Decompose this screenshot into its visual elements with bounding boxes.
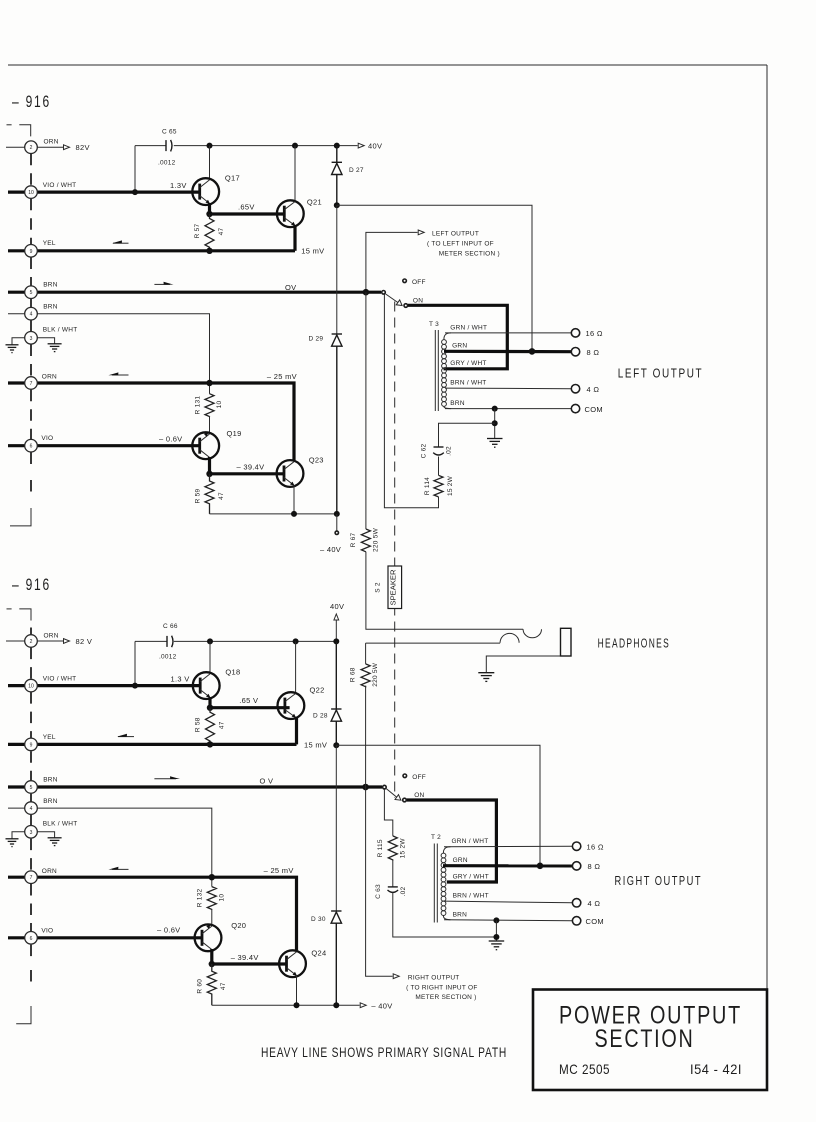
svg-text:ORN: ORN: [42, 868, 57, 875]
wire -40V rail (top half): [210, 513, 337, 515]
capacitor C65: [166, 140, 172, 152]
svg-text:16 Ω: 16 Ω: [587, 843, 604, 852]
svg-text:8 Ω: 8 Ω: [588, 862, 601, 871]
node D27/feedback junction: [334, 202, 340, 208]
svg-text:S 2: S 2: [375, 582, 382, 593]
svg-text:R 60: R 60: [196, 979, 203, 994]
wire YEL bus (thick): [8, 249, 295, 252]
node Zobel/ground junction: [492, 420, 498, 426]
wire switch to GRY/WHT tap b (thick): [407, 800, 497, 882]
wire VIO bus b (thick): [8, 936, 202, 939]
svg-text:82V: 82V: [76, 143, 90, 152]
wire VIO bus (thick): [8, 444, 200, 447]
connector pin 7: [25, 377, 38, 390]
arrow on YEL bus b (left): [117, 734, 134, 737]
wire BRN/WHT tap b to 4 ohm: [444, 901, 572, 903]
svg-text:BRN / WHT: BRN / WHT: [453, 893, 489, 900]
arrow on BRN bus (right): [154, 282, 173, 285]
node rail b /40V riser: [333, 638, 339, 644]
svg-text:C 65: C 65: [162, 129, 177, 136]
wire BRN pin4b line: [8, 808, 212, 887]
svg-text:COM: COM: [585, 405, 603, 414]
wire .65V line Q17 emitter to Q21 base (thick): [210, 212, 285, 215]
wire pin2 stub and 82V arrow: [6, 145, 70, 150]
arrow on ORN bus b (left): [108, 867, 128, 870]
svg-text:( TO RIGHT INPUT OF: ( TO RIGHT INPUT OF: [406, 984, 477, 991]
cable bracket dashed bottom-left (bottom half): [16, 1006, 31, 1024]
connector pin 5b: [25, 781, 38, 794]
svg-text:BRN: BRN: [43, 282, 58, 289]
wire 40V rail (top): [135, 143, 364, 148]
svg-text:15 2W: 15 2W: [399, 838, 406, 859]
svg-text:SPEAKER: SPEAKER: [390, 569, 397, 605]
svg-text:220 5W: 220 5W: [372, 662, 379, 687]
resistor R68: [361, 664, 370, 687]
wire R68 bottom to OV b: [365, 686, 367, 787]
resistor R67: [361, 529, 370, 552]
svg-text:40V: 40V: [368, 142, 382, 151]
svg-text:Q18: Q18: [225, 668, 240, 677]
switch S2 left: pivot and arm: [382, 291, 408, 308]
wire Q21 collector riser: [294, 146, 296, 202]
wire BRN junction b down to ground: [495, 920, 497, 941]
svg-text:ORN: ORN: [42, 374, 57, 381]
svg-text:1.3V: 1.3V: [170, 181, 187, 190]
headphone ring contact hook: [500, 633, 519, 642]
svg-text:4: 4: [30, 806, 33, 812]
transistor Q19: [192, 432, 219, 459]
border frame top line: [8, 64, 767, 66]
node rail b /Q18 collector: [207, 638, 213, 644]
svg-text:BRN: BRN: [453, 911, 468, 918]
connector pin 10: [25, 186, 38, 199]
svg-text:R 67: R 67: [350, 533, 357, 548]
node D29/-40V rail junction: [334, 511, 340, 517]
resistor R60: [207, 964, 216, 1005]
terminal 8 ohm: [571, 348, 579, 356]
wire C62 to R114: [438, 457, 440, 476]
wire GRN tap to 8 ohm (thick): [444, 350, 571, 354]
wire D27-D29 link crossing OV: [336, 205, 338, 334]
svg-text:4 Ω: 4 Ω: [588, 899, 601, 908]
transistor Q22: [278, 692, 305, 719]
node Q18 emitter junction: [207, 705, 213, 711]
svg-text:15 mV: 15 mV: [301, 246, 324, 255]
wire Zobel top link: [439, 423, 495, 447]
svg-text:47: 47: [218, 492, 225, 500]
switch S2 right: pivot and arm: [383, 785, 407, 802]
svg-text:Q23: Q23: [309, 456, 324, 465]
node Q24/-40V rail junction: [294, 1002, 300, 1008]
resistor R59: [205, 474, 214, 514]
cable bracket dashed bottom-left (top half): [10, 508, 31, 526]
svg-text:GRN / WHT: GRN / WHT: [450, 324, 487, 331]
wire GRN/WHT tap b to 16 ohm: [444, 845, 572, 848]
svg-text:( TO LEFT INPUT OF: ( TO LEFT INPUT OF: [427, 241, 494, 248]
svg-text:15 2W: 15 2W: [447, 475, 454, 496]
svg-text:VIO / WHT: VIO / WHT: [43, 675, 77, 682]
wire GRN/WHT tap to 16 ohm: [445, 332, 572, 334]
connector pin 4b: [25, 802, 38, 815]
node ORN/R131 junction: [206, 380, 212, 386]
svg-text:40V: 40V: [330, 602, 344, 611]
wire -40V rail (bottom half): [212, 1004, 360, 1006]
svg-text:BLK / WHT: BLK / WHT: [43, 327, 78, 334]
wire ORN bus (thick) with corner down to Q23: [8, 383, 294, 460]
svg-text:MC 2505: MC 2505: [559, 1061, 610, 1077]
node BRN/ground junction: [492, 406, 498, 412]
node OV b/R68 tap junction: [362, 784, 369, 791]
resistor R132: [207, 887, 216, 910]
svg-text:2: 2: [30, 145, 33, 151]
svg-text:.0012: .0012: [159, 653, 177, 660]
arrow on YEL bus (left): [112, 240, 129, 243]
terminal -40V (top half): [335, 514, 338, 535]
connector pin 3b: [25, 826, 38, 839]
wire YEL bus b (thick): [8, 743, 297, 746]
wire R132 to Q20 emitter: [211, 910, 213, 927]
svg-text:3: 3: [30, 336, 33, 342]
svg-text:LEFT OUTPUT: LEFT OUTPUT: [618, 366, 704, 380]
wire pin2b stub and 82V arrow: [6, 639, 70, 644]
svg-text:.02: .02: [400, 886, 407, 896]
svg-text:R 59: R 59: [195, 489, 202, 504]
svg-text:10: 10: [216, 401, 223, 409]
svg-text:.02: .02: [446, 446, 453, 456]
wire Q22 collector riser: [295, 641, 297, 694]
wire -39.4V line to Q23 base (thick): [210, 472, 285, 475]
svg-text:– 25 mV: – 25 mV: [264, 866, 294, 875]
svg-text:.0012: .0012: [158, 160, 176, 167]
connector pin 6b: [25, 932, 38, 945]
node OV/R67 tap junction: [363, 289, 370, 296]
connector pin 10b: [25, 679, 38, 692]
svg-text:– 40V: – 40V: [320, 545, 341, 554]
svg-text:RIGHT OUTPUT: RIGHT OUTPUT: [408, 974, 460, 981]
connector pin 3: [25, 332, 38, 345]
node D30/-40V rail junction: [333, 1002, 339, 1008]
wire VIO/WHT bus b (thick): [8, 684, 200, 687]
svg-text:YEL: YEL: [43, 240, 56, 247]
label LEFT OUTPUT (meter note) arrow: [366, 230, 424, 292]
svg-text:– 40V: – 40V: [371, 1002, 392, 1011]
cable dashed line between connector pins (top half): [30, 154, 32, 497]
resistor R115: [388, 836, 397, 861]
svg-text:T 2: T 2: [431, 834, 441, 841]
svg-text:C 63: C 63: [375, 884, 382, 899]
terminal 4 ohm: [571, 385, 579, 393]
node D28/feedback junction b: [333, 742, 339, 748]
wire R114 bottom to output line: [384, 295, 438, 508]
svg-text:5: 5: [30, 785, 33, 791]
border frame right line: [766, 65, 768, 990]
svg-text:– 0.6V: – 0.6V: [157, 926, 180, 935]
svg-text:– 0.6V: – 0.6V: [159, 435, 182, 444]
ground pin3b left: [6, 839, 19, 847]
terminal COM: [571, 404, 579, 412]
svg-text:– 39.4V: – 39.4V: [237, 463, 265, 472]
cable bracket dashed top-left (bottom half): [7, 609, 32, 621]
arrow -40V rail b: [360, 1003, 366, 1008]
wire ORN bus b (thick) with corner down to Q24: [8, 877, 297, 950]
transformer T2 core: [434, 844, 437, 923]
svg-text:BRN: BRN: [450, 400, 465, 407]
svg-text:RIGHT OUTPUT: RIGHT OUTPUT: [615, 874, 703, 888]
wire R115 to C63: [392, 861, 394, 887]
svg-text:GRY / WHT: GRY / WHT: [453, 873, 489, 880]
svg-text:16 Ω: 16 Ω: [586, 329, 603, 338]
svg-text:6: 6: [30, 444, 33, 450]
svg-text:GRN / WHT: GRN / WHT: [452, 838, 489, 845]
svg-text:82 V: 82 V: [76, 637, 93, 646]
wire BRN/WHT tap to 4 ohm: [445, 387, 572, 390]
wire feedback to 8-ohm (top): [337, 205, 532, 351]
svg-text:C 66: C 66: [163, 623, 178, 630]
wire Q21 emitter drop (thick): [293, 225, 296, 251]
connector pin 9b: [25, 738, 38, 751]
svg-text:4: 4: [30, 312, 33, 318]
svg-text:47: 47: [220, 982, 227, 990]
svg-text:7: 7: [30, 875, 33, 881]
node R58/YEL b junction: [207, 741, 213, 747]
terminal 16 ohm: [571, 329, 579, 337]
transistor Q20: [195, 924, 222, 951]
terminal 40V supply arrow (bottom): [334, 614, 339, 641]
transistor Q21: [277, 200, 304, 227]
switch S2 left: OFF contact: [403, 279, 407, 283]
svg-text:GRN: GRN: [453, 857, 468, 864]
terminal 4 ohm b: [572, 899, 580, 907]
svg-text:Q19: Q19: [227, 429, 242, 438]
resistor R131: [205, 394, 214, 417]
ground headphone sleeve: [478, 673, 494, 682]
svg-text:O V: O V: [260, 776, 274, 785]
wire Q18 collector riser: [209, 641, 211, 674]
svg-text:7: 7: [30, 381, 33, 387]
node ORN b/R132 junction: [209, 874, 215, 880]
wire VIO/WHT bus (thick): [8, 191, 200, 194]
node rail b /Q22 collector: [293, 638, 299, 644]
svg-text:D 30: D 30: [311, 916, 326, 923]
resistor R58: [206, 708, 215, 745]
svg-text:ORN: ORN: [44, 632, 59, 639]
ground pin3b right: [48, 838, 62, 846]
svg-text:BRN: BRN: [43, 304, 58, 311]
node junction riser/VIO-WHT b: [132, 683, 138, 689]
svg-text:COM: COM: [586, 917, 604, 926]
wire Q22 emitter drop to YEL b (thick): [295, 717, 298, 745]
node feedback/8-ohm junction b: [537, 863, 544, 870]
wire 40V rail (bottom): [135, 640, 336, 642]
wire Q17 collector riser: [209, 146, 211, 180]
svg-text:BRN: BRN: [43, 776, 58, 783]
diode D30: [331, 911, 341, 1005]
wire D28-D30 link crossing OV b: [335, 745, 337, 911]
wire R67 to headphone tip contact: [366, 552, 523, 629]
svg-text:VIO: VIO: [41, 435, 53, 442]
wire BRN junction down to ground: [494, 409, 496, 439]
wire C66 riser from VIO/WHT bus b: [134, 641, 136, 685]
svg-text:ORN: ORN: [44, 139, 59, 146]
wire pivot b to Zobel R115: [384, 789, 392, 836]
svg-text:LEFT OUTPUT: LEFT OUTPUT: [432, 230, 479, 237]
wire BRN OV bus (thick): [8, 291, 381, 294]
wire BRN tap to COM: [445, 408, 572, 410]
connector pin 2b: [25, 635, 38, 648]
svg-text:15 mV: 15 mV: [304, 740, 327, 749]
arrow on BRN bus b (right): [154, 776, 180, 779]
node Q20/R60 junction: [209, 961, 215, 967]
svg-text:10: 10: [218, 894, 225, 902]
svg-text:R 68: R 68: [350, 667, 357, 682]
node Q23/-40V rail junction: [291, 511, 297, 517]
node rail/D27: [334, 143, 340, 149]
svg-text:6: 6: [30, 936, 33, 942]
ground pin3 left: [6, 345, 19, 353]
headphone plug body: [561, 628, 572, 656]
svg-text:HEADPHONES: HEADPHONES: [598, 636, 671, 650]
svg-text:I54 - 42I: I54 - 42I: [690, 1061, 742, 1077]
svg-text:VIO / WHT: VIO / WHT: [43, 182, 77, 189]
wire GRN tap b to 8 ohm (thick): [443, 864, 572, 867]
transformer T3 core: [435, 330, 438, 411]
transformer T3 winding: [442, 333, 451, 409]
ground pin3 right: [48, 344, 62, 352]
svg-text:D 27: D 27: [349, 167, 364, 174]
transformer T2 winding: [441, 847, 450, 920]
arrow on ORN bus (left): [108, 372, 128, 375]
svg-text:ON: ON: [413, 297, 423, 304]
svg-text:OFF: OFF: [412, 279, 426, 286]
svg-text:R 132: R 132: [196, 888, 203, 907]
ground below COM: [487, 439, 503, 448]
svg-text:– 39.4V: – 39.4V: [231, 953, 259, 962]
connector pin 5: [25, 286, 38, 299]
svg-text:– 916: – 916: [12, 92, 51, 111]
svg-text:R 131: R 131: [195, 396, 202, 415]
svg-text:BRN / WHT: BRN / WHT: [450, 380, 486, 387]
terminal 8 ohm b: [572, 862, 580, 870]
wire Q18 emitter to junction (thick): [208, 697, 211, 708]
ground below COM b: [489, 941, 505, 950]
node feedback/8-ohm junction: [529, 348, 536, 355]
resistor R114: [434, 475, 443, 497]
node rail/Q17 collector: [207, 143, 213, 149]
title block box: [533, 990, 767, 1091]
wire BRN OV bus b (thick): [8, 785, 382, 788]
wire BRN tap b to COM: [444, 920, 572, 921]
svg-text:Q17: Q17: [225, 174, 240, 183]
resistor R57: [205, 214, 214, 251]
transistor Q23: [277, 460, 304, 487]
wire feedback to 8-ohm (bottom): [336, 745, 540, 866]
wire -39.4V line to Q24 base (thick): [212, 962, 287, 965]
capacitor C62: [433, 447, 444, 455]
wire Q19 collector to junction (thick): [208, 457, 211, 474]
wire Q24 emitter to -40V rail b: [296, 975, 298, 1005]
connector pin 6: [25, 439, 38, 452]
node junction riser/VIO-WHT: [132, 189, 138, 195]
diode D28: [331, 641, 341, 745]
svg-text:47: 47: [218, 228, 225, 236]
capacitor C66: [167, 636, 173, 648]
wire BRN pin4 line: [8, 314, 210, 394]
terminal COM b: [572, 917, 580, 925]
svg-text:SECTION: SECTION: [595, 1025, 695, 1053]
connector pin 4: [25, 307, 38, 320]
svg-text:10: 10: [28, 684, 34, 690]
wire R131 to Q19 emitter: [209, 417, 211, 434]
svg-text:D 28: D 28: [313, 713, 328, 720]
switch S2 body box: [388, 566, 402, 609]
svg-text:1.3 V: 1.3 V: [171, 674, 190, 683]
svg-text:R 58: R 58: [195, 717, 202, 732]
connector pin 9: [25, 245, 38, 258]
svg-text:.65 V: .65 V: [239, 696, 258, 705]
wire RIGHT OUTPUT tap down from OV b: [366, 787, 393, 976]
svg-text:D 29: D 29: [309, 335, 324, 342]
wire C63 bottom to ground junction b: [393, 893, 497, 938]
headphone ring contact line from R68: [366, 642, 501, 644]
svg-text:YEL: YEL: [43, 734, 56, 741]
svg-text:HEAVY LINE SHOWS PRIMARY SIGNA: HEAVY LINE SHOWS PRIMARY SIGNAL PATH: [261, 1045, 507, 1060]
svg-text:Q21: Q21: [307, 198, 322, 207]
svg-text:C 62: C 62: [421, 444, 428, 459]
node R57/YEL junction: [206, 248, 212, 254]
wire Q20 collector to junction (thick): [210, 949, 213, 964]
svg-text:ON: ON: [414, 792, 424, 799]
node Zobel/ground junction b: [493, 934, 499, 940]
wire C65 riser from VIO/WHT bus: [134, 146, 136, 193]
svg-text:BLK / WHT: BLK / WHT: [43, 821, 78, 828]
svg-text:METER SECTION ): METER SECTION ): [415, 994, 476, 1001]
svg-text:9: 9: [30, 249, 33, 255]
wire R68 feed from headphone ring down to OV b: [365, 643, 367, 664]
wire BLK/WHT pin3b to grounds: [12, 832, 55, 839]
svg-text:BRN: BRN: [43, 798, 58, 805]
switch S2 right: OFF contact: [403, 774, 407, 778]
arrow RIGHT OUTPUT: [393, 974, 399, 979]
wire .65V line Q18 emitter to Q22 base (thick): [210, 706, 290, 709]
node rail/Q21 collector: [292, 143, 298, 149]
svg-text:9: 9: [30, 742, 33, 748]
transistor Q24: [279, 950, 306, 977]
svg-text:R 115: R 115: [377, 839, 384, 857]
svg-text:R 114: R 114: [424, 477, 431, 495]
svg-text:2: 2: [30, 639, 33, 645]
svg-text:10: 10: [28, 190, 34, 196]
svg-text:METER SECTION ): METER SECTION ): [439, 251, 500, 258]
cable bracket dashed top-left: [7, 125, 31, 137]
transistor Q18: [193, 672, 220, 699]
svg-text:GRY / WHT: GRY / WHT: [450, 360, 486, 367]
svg-text:R 57: R 57: [194, 224, 201, 239]
wire BLK/WHT pin3 to grounds: [12, 338, 55, 345]
svg-text:Q22: Q22: [310, 685, 325, 694]
node Q19/R59 junction: [206, 471, 212, 477]
svg-text:OFF: OFF: [412, 774, 426, 781]
svg-text:– 25 mV: – 25 mV: [267, 372, 297, 381]
svg-text:T 3: T 3: [429, 321, 439, 328]
diode D27: [332, 146, 342, 206]
capacitor C63: [388, 887, 399, 893]
svg-text:220 5W: 220 5W: [373, 527, 380, 552]
svg-text:GRN: GRN: [452, 343, 467, 350]
svg-text:Q20: Q20: [231, 921, 246, 930]
diode D29: [332, 334, 342, 514]
wire R67 feed down from OV: [365, 292, 367, 529]
wire plug sleeve to ground: [486, 656, 560, 673]
